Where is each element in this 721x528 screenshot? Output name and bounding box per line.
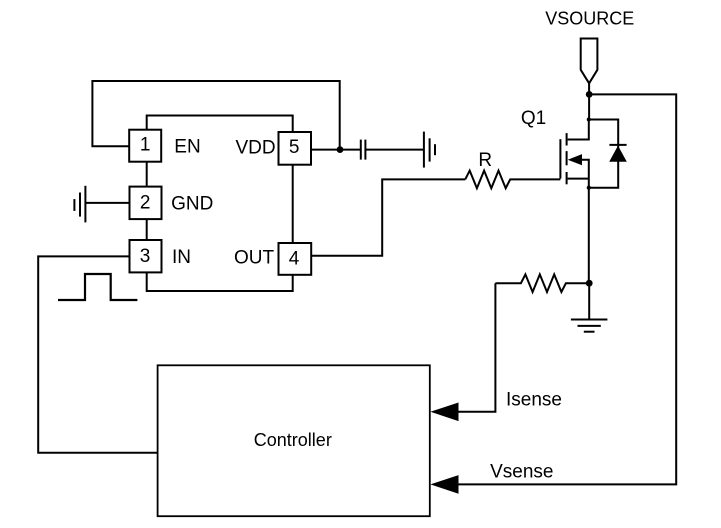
svg-text:GND: GND: [171, 194, 213, 215]
svg-text:R: R: [478, 150, 492, 171]
svg-text:Vsense: Vsense: [490, 462, 553, 483]
pin 3 box: [130, 240, 162, 272]
junction source node: [587, 186, 591, 190]
resistor R: [465, 171, 560, 189]
wire EN loop: pin1 to VDD node: [92, 81, 339, 150]
svg-text:2: 2: [140, 193, 151, 214]
svg-text:Isense: Isense: [506, 389, 562, 410]
wire sense node to ground: [588, 283, 590, 319]
wire OUT net: pin4 to resistor R: [311, 179, 465, 255]
svg-text:VSOURCE: VSOURCE: [545, 8, 634, 28]
Vsense arrow into controller: [430, 475, 458, 494]
wire IN net: pin3 to controller: [38, 256, 157, 452]
pin 1 box: [129, 130, 161, 162]
VSOURCE connector: [581, 39, 598, 84]
junction VDD node: [337, 146, 344, 153]
wire Isense: [459, 283, 496, 412]
svg-text:VDD: VDD: [235, 138, 275, 159]
capacitor C: [361, 140, 366, 160]
ground (left-pointing) at pin 2: [74, 186, 85, 223]
junction sense node: [586, 280, 593, 287]
transistor Q1 MOSFET: [560, 120, 588, 188]
pin 4 box: [279, 243, 312, 275]
ground (earth) below sense node: [571, 320, 608, 332]
resistor Rsense: [495, 274, 589, 292]
wire source to sense node: [588, 188, 590, 284]
ground (right-pointing) at VDD capacitor: [424, 132, 435, 168]
pin 5 box: [279, 132, 312, 165]
svg-text:5: 5: [289, 137, 300, 158]
Q1 body arrow: [568, 154, 582, 165]
Isense arrow into controller: [430, 403, 458, 422]
svg-text:Q1: Q1: [521, 108, 546, 129]
svg-text:3: 3: [140, 246, 151, 267]
svg-text:Controller: Controller: [254, 430, 332, 450]
IC driver body: [147, 116, 293, 292]
pin 2 box: [130, 187, 162, 220]
svg-text:OUT: OUT: [234, 248, 275, 269]
body diode of Q1: [589, 120, 627, 188]
junction VSOURCE node: [586, 91, 593, 98]
svg-text:4: 4: [289, 248, 300, 269]
junction drain node: [587, 117, 591, 121]
wire VDD: pin5 to capacitor: [311, 149, 360, 151]
wire VSOURCE to drain node: [588, 83, 590, 119]
svg-text:EN: EN: [174, 136, 200, 157]
wire Vsense rail (top, right side, bottom): [458, 94, 676, 484]
controller box: [158, 365, 430, 516]
svg-text:IN: IN: [172, 247, 191, 268]
wire capacitor to ground: [365, 149, 424, 151]
wire pin2 GND to ground: [85, 202, 129, 204]
pulse waveform symbol: [58, 274, 137, 300]
svg-text:1: 1: [140, 134, 151, 155]
